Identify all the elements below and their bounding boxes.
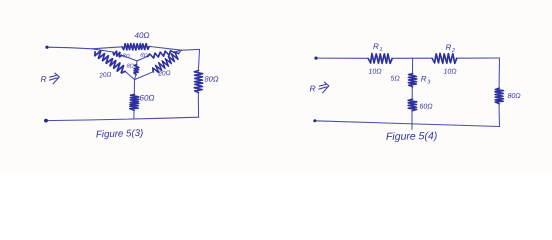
svg-text:Figure 5(4): Figure 5(4) (386, 130, 438, 143)
svg-text:40Ω: 40Ω (135, 31, 150, 40)
svg-text:60Ω: 60Ω (140, 94, 155, 103)
svg-text:5Ω: 5Ω (391, 76, 401, 83)
svg-text:1: 1 (380, 47, 383, 53)
svg-text:8Ω: 8Ω (122, 53, 130, 60)
svg-text:10Ω: 10Ω (444, 69, 458, 76)
svg-text:20Ω: 20Ω (157, 70, 171, 78)
svg-text:8Ω: 8Ω (140, 52, 148, 59)
svg-text:60Ω: 60Ω (420, 104, 434, 111)
svg-text:R: R (446, 43, 452, 52)
svg-text:10Ω: 10Ω (369, 69, 383, 76)
svg-text:R: R (41, 74, 47, 84)
svg-text:R: R (310, 84, 316, 94)
svg-text:R: R (373, 42, 379, 51)
svg-text:80Ω: 80Ω (205, 75, 219, 84)
svg-text:8Ω: 8Ω (127, 64, 134, 70)
svg-text:2: 2 (451, 48, 455, 54)
svg-text:80Ω: 80Ω (508, 93, 522, 100)
svg-text:20Ω: 20Ω (98, 71, 112, 79)
svg-text:R: R (421, 75, 427, 84)
svg-text:Figure 5(3): Figure 5(3) (96, 128, 144, 141)
